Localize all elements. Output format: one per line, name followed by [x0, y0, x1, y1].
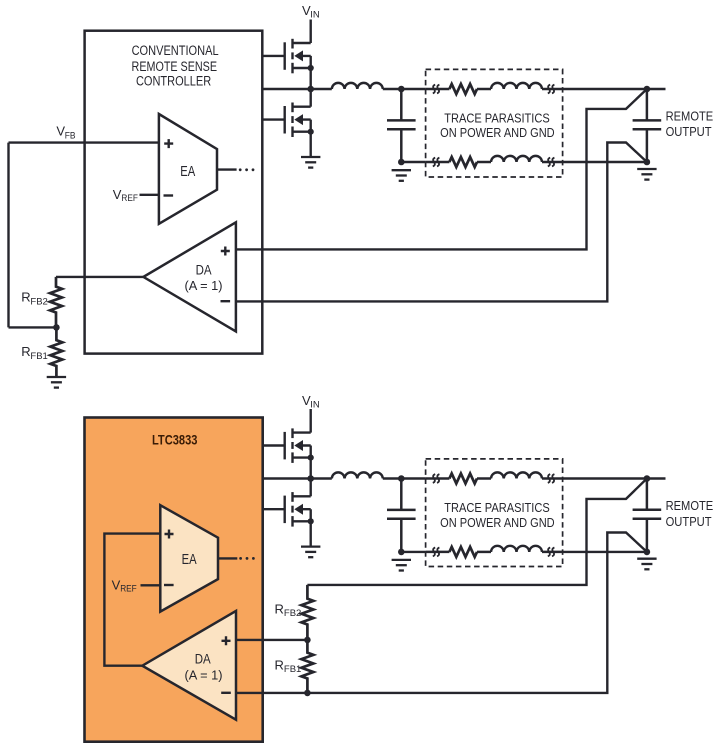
- svg-text:REF: REF: [121, 193, 138, 204]
- junction Cout2 bottom: [398, 549, 405, 556]
- wire L1 to parasitics box: [383, 88, 426, 90]
- svg-text:DA: DA: [196, 262, 212, 277]
- capacitor remote (bottom): [633, 479, 662, 552]
- svg-text:DA: DA: [195, 652, 211, 667]
- wire DA+ sense line: [236, 89, 647, 249]
- svg-text:ON POWER AND GND: ON POWER AND GND: [440, 125, 555, 140]
- svg-text:REMOTE: REMOTE: [666, 109, 714, 124]
- resistor RFB1: [50, 327, 62, 377]
- svg-text:REMOTE SENSE: REMOTE SENSE: [132, 59, 218, 74]
- junction divider (bottom): [304, 637, 311, 644]
- wire EA output dots (bottom): [218, 557, 237, 559]
- wire DA- sense line: [236, 143, 647, 302]
- wire VFB to EA +: [9, 141, 159, 143]
- svg-text:IN: IN: [310, 10, 320, 21]
- wire SW node (bottom): [262, 477, 332, 479]
- inductor L2: [332, 472, 383, 478]
- op-amp EA (error amplifier): [159, 114, 217, 224]
- parasitic R-L power trace: [426, 83, 563, 94]
- wire local gnd line (bottom): [401, 551, 647, 553]
- controller box: [85, 31, 263, 354]
- ground below Q2: [301, 157, 320, 168]
- svg-text:OUTPUT: OUTPUT: [666, 124, 712, 139]
- svg-text:EA: EA: [180, 164, 195, 180]
- svg-text:FB2: FB2: [30, 297, 47, 308]
- wire SW to Q4 drain: [310, 479, 312, 497]
- ground below Cout2: [392, 560, 411, 571]
- svg-text:R: R: [21, 290, 30, 305]
- svg-text:R: R: [275, 658, 284, 673]
- svg-text:FB: FB: [65, 131, 76, 142]
- wire DA output to divider: [56, 276, 143, 278]
- svg-text:REF: REF: [120, 584, 137, 595]
- wire DA- sense line (bottom): [236, 533, 647, 693]
- svg-text:IN: IN: [310, 399, 320, 410]
- junction RFB1 bottom: [304, 690, 311, 697]
- trace parasitics dashed box: [426, 69, 563, 177]
- svg-text:EA: EA: [182, 552, 197, 568]
- resistor RFB2: [50, 277, 62, 328]
- wire Q2 source to ground: [310, 132, 312, 157]
- wire VREF stub: [140, 194, 159, 196]
- trace parasitics dashed box (bottom): [426, 459, 563, 567]
- parasitic R-L power trace (bottom): [426, 472, 563, 483]
- svg-text:CONVENTIONAL: CONVENTIONAL: [132, 43, 219, 58]
- svg-text:OUTPUT: OUTPUT: [666, 514, 712, 529]
- wire Q1 source to SW: [310, 68, 312, 89]
- wire VIN to Q1 drain: [310, 20, 312, 44]
- wire feedback DA out to EA +: [104, 534, 160, 666]
- svg-text:REMOTE: REMOTE: [666, 498, 714, 513]
- parasitic R-L gnd trace (bottom): [426, 546, 563, 557]
- wire Q3 source to SW: [310, 458, 312, 479]
- svg-text:R: R: [21, 344, 30, 359]
- inductor L1: [332, 83, 383, 89]
- junction Cout bottom: [398, 159, 405, 166]
- parasitic R-L gnd trace: [426, 156, 563, 167]
- controller title: [132, 43, 219, 89]
- resistor RFB1 (bottom): [301, 640, 313, 693]
- junction remote top (bottom): [644, 475, 651, 482]
- wire power line to remote (bottom): [563, 477, 666, 479]
- transistor Q4 bottom NMOS (bottom): [262, 492, 314, 526]
- resistor RFB2 (bottom): [301, 585, 313, 640]
- transistor Q1 top NMOS: [262, 39, 314, 74]
- svg-text:(A = 1): (A = 1): [185, 669, 223, 683]
- wire Q4 source to ground: [310, 521, 312, 546]
- wire power line to remote: [563, 88, 666, 90]
- wire RFB2 top sense line (bottom): [307, 479, 647, 585]
- wire L2 to parasitics box: [383, 477, 426, 479]
- svg-text:CONTROLLER: CONTROLLER: [136, 73, 212, 88]
- svg-text:LTC3833: LTC3833: [152, 433, 198, 448]
- svg-text:FB1: FB1: [30, 351, 47, 362]
- capacitor remote: [633, 89, 662, 162]
- ground below Cout: [392, 170, 411, 181]
- transistor Q3 top NMOS (bottom): [262, 428, 314, 463]
- ground remote: [637, 169, 656, 180]
- junction remote bottom (bottom): [644, 549, 651, 556]
- wire local gnd line: [401, 161, 647, 163]
- svg-text:R: R: [275, 601, 284, 616]
- junction Cout top: [398, 86, 405, 93]
- op-amp DA (bottom): [142, 611, 236, 720]
- wire SW to Q2 drain: [310, 89, 312, 107]
- capacitor Cout: [387, 89, 416, 162]
- svg-text:TRACE PARASITICS: TRACE PARASITICS: [444, 110, 550, 125]
- junction SW: [307, 86, 314, 93]
- ground remote (bottom): [637, 559, 656, 570]
- wire DA+ to divider junction (bottom): [236, 639, 307, 641]
- LTC3833 box: [85, 418, 263, 742]
- svg-text:FB1: FB1: [284, 664, 301, 675]
- svg-text:ON POWER AND GND: ON POWER AND GND: [440, 515, 555, 530]
- svg-text:(A = 1): (A = 1): [185, 279, 223, 293]
- junction SW (bottom): [307, 475, 314, 482]
- junction remote bottom: [644, 159, 651, 166]
- wire VIN to Q3 drain: [310, 409, 312, 433]
- wire left rail: [7, 143, 9, 328]
- wire VREF stub (bottom): [141, 584, 161, 586]
- svg-text:FB2: FB2: [284, 608, 301, 619]
- junction remote top: [644, 86, 651, 93]
- op-amp DA (diff amp, A = 1): [143, 222, 236, 331]
- capacitor Cout2: [387, 479, 416, 552]
- ground below Q4: [301, 547, 320, 558]
- wire SW node: [262, 88, 332, 90]
- op-amp EA (bottom): [160, 505, 218, 611]
- wire rail to divider junction: [9, 326, 57, 328]
- ground below RFB1: [47, 377, 66, 388]
- svg-text:TRACE PARASITICS: TRACE PARASITICS: [444, 500, 550, 515]
- junction Cout2 top: [398, 475, 405, 482]
- transistor Q2 bottom NMOS: [262, 103, 314, 138]
- junction divider: [53, 324, 60, 331]
- wire EA output with dots: [217, 168, 237, 170]
